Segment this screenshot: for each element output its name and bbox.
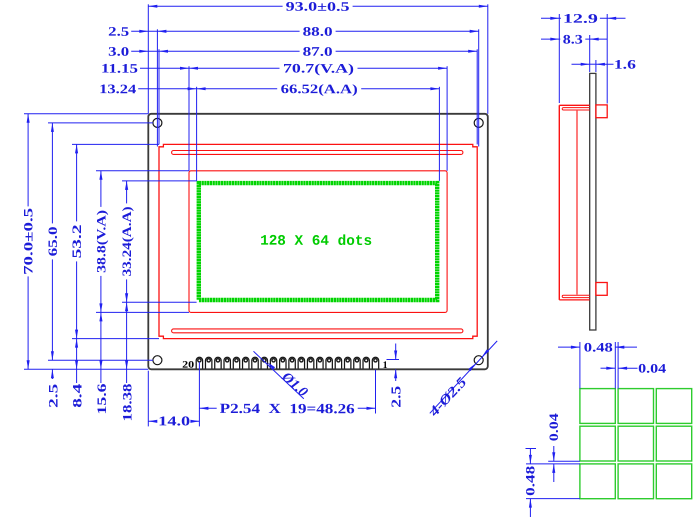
extension line dot column right — [614, 342, 616, 389]
extension line bezel left — [158, 49, 160, 144]
pin header row of 20 pins — [196, 357, 378, 368]
side view bezel top fold slot — [562, 108, 590, 110]
dimension 66.52 active area width with 13.24 offset — [137, 88, 440, 90]
svg-text:87.0: 87.0 — [303, 44, 333, 59]
extension line body top left — [24, 113, 148, 115]
extension line viewing area bottom left — [96, 311, 189, 313]
svg-text:93.0±0.5: 93.0±0.5 — [286, 0, 351, 14]
extension line top hole center left — [48, 122, 153, 124]
dimension 88.0 hole spacing with 2.5 offset — [130, 30, 479, 32]
dimension 12.9 total thickness — [541, 17, 559, 19]
svg-text:18.38: 18.38 — [119, 383, 134, 422]
svg-text:70.7(V.A): 70.7(V.A) — [283, 61, 354, 76]
dimension P2.54 X 19=48.26 pin pitch — [199, 407, 375, 409]
extension line PCB right side view — [595, 60, 597, 72]
side view bezel left face — [558, 105, 560, 300]
side view bottom mounting tab — [596, 283, 607, 296]
mounting hole bottom-right — [474, 356, 483, 365]
extension line active area left — [196, 87, 198, 181]
svg-text:13.24: 13.24 — [99, 81, 137, 96]
extension line body right top — [487, 4, 489, 114]
extension line dot row bottom — [526, 498, 580, 500]
svg-text:12.9: 12.9 — [563, 11, 599, 26]
dimension 53.2 bezel height — [76, 144, 78, 338]
svg-text:70.0±0.5: 70.0±0.5 — [21, 207, 36, 275]
dimension 0.48 dot height — [526, 448, 537, 450]
svg-text:4-Ø2.5: 4-Ø2.5 — [426, 375, 470, 420]
mounting hole top-left — [153, 118, 162, 127]
dimension 38.8 viewing area height — [100, 171, 102, 313]
extension line dot row gap upper — [548, 460, 580, 462]
mounting hole top-right — [474, 118, 483, 127]
svg-text:65.0: 65.0 — [45, 226, 60, 256]
svg-text:33.24(A.A): 33.24(A.A) — [119, 206, 134, 276]
extension line pin 1 center — [375, 370, 377, 414]
extension line bezel front side view — [558, 14, 560, 103]
dimension 18.38 active area to body bottom — [126, 302, 128, 383]
dimension 0.48 dot width — [558, 346, 580, 348]
extension line viewing area left — [188, 66, 190, 171]
dimension 93.0 +/-0.5 overall width — [148, 5, 488, 7]
side view bezel bottom fold slot — [562, 295, 590, 297]
svg-text:0.48: 0.48 — [523, 465, 538, 496]
dimension 65.0 hole spacing vertical — [51, 123, 53, 360]
LCD module PCB outline (front view) — [148, 114, 488, 369]
metal bezel outline with notched corners — [159, 144, 477, 338]
extension line body left bottom — [147, 371, 149, 427]
mounting hole bottom-left — [153, 356, 162, 365]
extension line dot column left — [579, 342, 581, 389]
svg-text:8.4: 8.4 — [69, 383, 84, 408]
dimension 2.5 pin row offset — [387, 359, 400, 361]
extension line bezel top left — [72, 143, 159, 145]
bezel bottom slot — [172, 329, 463, 333]
extension line tab right side view — [606, 14, 608, 104]
leader 4 holes diameter 2.5 — [430, 341, 497, 413]
svg-text:15.6: 15.6 — [94, 383, 109, 415]
viewing area V.A outline — [189, 171, 447, 313]
extension line body bottom left — [24, 368, 148, 370]
svg-text:3.0: 3.0 — [108, 44, 129, 59]
bezel top slot — [172, 151, 463, 155]
svg-text:20: 20 — [182, 360, 194, 371]
side view bezel bottom flange — [559, 299, 589, 301]
svg-text:2.5: 2.5 — [390, 386, 405, 408]
side view bezel inner wall — [576, 111, 578, 295]
extension line body left top — [147, 4, 149, 114]
extension line viewing area top left — [96, 170, 189, 172]
dot matrix detail 3x3 grid of pixels — [580, 389, 692, 499]
dimension 0.04 dot gap horizontal — [601, 367, 616, 369]
extension line pin 20 center — [198, 362, 200, 426]
svg-text:11.15: 11.15 — [101, 61, 139, 76]
extension line right hole center — [478, 29, 480, 146]
svg-text:1.6: 1.6 — [614, 57, 637, 72]
svg-text:38.8(V.A): 38.8(V.A) — [93, 210, 108, 273]
side view top mounting tab — [596, 105, 607, 118]
dimension 8.4 bezel to body bottom — [76, 339, 78, 383]
svg-text:14.0: 14.0 — [158, 413, 190, 428]
extension line bottom hole center left — [48, 359, 153, 361]
svg-text:66.52(A.A): 66.52(A.A) — [281, 81, 358, 96]
svg-text:53.2: 53.2 — [69, 224, 84, 258]
svg-text:P2.54 X 19=48.26: P2.54 X 19=48.26 — [220, 402, 355, 417]
dimension 2.5 bottom hole offset — [51, 369, 53, 379]
extension line active area bottom left — [122, 301, 197, 303]
active area A.A dotted green border — [199, 183, 437, 300]
dimension 1.6 PCB thickness — [572, 63, 590, 65]
extension line PCB left side view — [589, 35, 591, 72]
svg-text:8.3: 8.3 — [563, 31, 584, 46]
dimension 15.6 viewing area to body bottom — [100, 312, 102, 383]
dimension 70.0 +/-0.5 overall height — [27, 114, 29, 369]
extension line dot gap right — [617, 342, 619, 389]
svg-text:2.5: 2.5 — [108, 24, 130, 39]
svg-text:0.04: 0.04 — [546, 413, 561, 442]
extension line viewing area right — [446, 66, 448, 171]
dimension 14.0 pin offset — [148, 420, 199, 422]
svg-text:1: 1 — [383, 360, 388, 371]
extension line active area top left — [122, 180, 197, 182]
extension line bezel right — [476, 49, 478, 144]
svg-text:2.5: 2.5 — [45, 383, 60, 408]
dimension 70.7 viewing area width with 11.15 offset — [139, 67, 448, 69]
extension line bezel bottom left — [72, 338, 159, 340]
extension line left hole center — [156, 29, 158, 146]
extension line dot row gap lower — [526, 463, 580, 465]
leader diameter 1.0 pin hole — [254, 351, 304, 399]
dimension 33.24 active area height — [126, 181, 128, 302]
dimension 87.0 bezel width with 3.0 offset — [130, 50, 478, 52]
dimension 0.04 dot gap vertical — [553, 446, 555, 461]
svg-text:128 X 64 dots: 128 X 64 dots — [260, 234, 372, 250]
svg-text:0.48: 0.48 — [584, 339, 614, 354]
svg-text:88.0: 88.0 — [303, 24, 333, 39]
side view bezel top flange — [559, 104, 589, 106]
svg-text:Ø1.0: Ø1.0 — [278, 369, 310, 400]
svg-text:0.04: 0.04 — [638, 361, 667, 376]
extension line active area right — [438, 87, 440, 181]
side view PCB cross-section — [590, 73, 596, 330]
dimension 8.3 bezel depth — [541, 38, 559, 40]
